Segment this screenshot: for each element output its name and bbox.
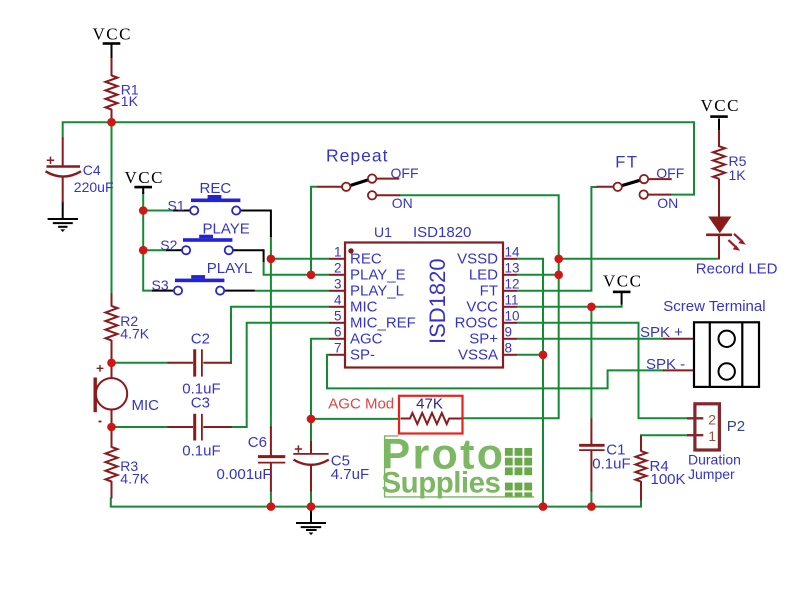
wire AGC node to 47K — [311, 418, 399, 420]
svg-text:LED: LED — [469, 267, 498, 284]
svg-text:PLAY_L: PLAY_L — [350, 283, 404, 300]
wire pin12 FT to switch — [517, 187, 598, 291]
svg-text:VCC: VCC — [466, 299, 498, 316]
svg-text:REC: REC — [200, 180, 232, 197]
wire pin14 VSSD to ground rail — [517, 259, 543, 507]
wire C6 bottom to rail — [270, 490, 272, 506]
wire S2 left lead — [166, 249, 182, 251]
resistor R3 — [106, 447, 118, 482]
switch SW1 Repeat — [342, 174, 376, 199]
svg-text:Repeat: Repeat — [326, 145, 388, 165]
wire ground bottom rail — [111, 498, 641, 507]
screw terminal J1 — [694, 322, 759, 387]
wire C2 right lead — [203, 362, 232, 364]
svg-text:Jumper: Jumper — [688, 466, 735, 482]
svg-text:5: 5 — [334, 309, 342, 324]
svg-text:P2: P2 — [727, 418, 745, 435]
wire C4 to ground — [62, 202, 64, 219]
svg-text:C4: C4 — [83, 162, 101, 178]
VCC symbol 1 bar — [103, 42, 121, 45]
svg-text:VCC: VCC — [125, 168, 164, 187]
wire C4 lower lead — [62, 177, 64, 203]
capacitor C2 — [195, 349, 202, 376]
wire C3 to pin5 MIC_REF — [231, 323, 329, 427]
VCC symbol 4 bar — [613, 291, 631, 294]
wire FT ON lead — [648, 194, 671, 196]
svg-text:SPK +: SPK + — [640, 324, 683, 341]
wire S1 to REC node — [270, 236, 272, 259]
svg-text:VCC: VCC — [701, 96, 740, 115]
wire pin7 SP- to SPK- — [327, 355, 664, 389]
resistor 47K red box — [399, 396, 463, 434]
wire S2 to PLAY_E row — [264, 261, 329, 275]
logo ProtoSupplies border — [385, 436, 535, 497]
wire Repeat pole to pin2 node — [311, 187, 319, 275]
ground symbol main — [296, 523, 326, 530]
svg-text:S1: S1 — [168, 197, 185, 213]
capacitor C3 — [195, 414, 202, 441]
IC pin names left — [350, 251, 416, 364]
wire 47K left lead — [401, 418, 411, 420]
wire MIC leads — [111, 363, 113, 379]
logo squares grid — [505, 448, 532, 497]
wire R2 leads — [111, 293, 113, 307]
svg-text:100K: 100K — [651, 471, 686, 488]
wire R3 leads — [111, 427, 113, 448]
svg-text:12: 12 — [505, 277, 520, 292]
IC U1 ISD1820 body — [345, 243, 503, 368]
svg-text:C3: C3 — [191, 395, 210, 412]
svg-text:Record LED: Record LED — [696, 261, 778, 278]
wire VCC top rail — [63, 122, 694, 194]
jumper P2 box — [695, 404, 720, 450]
IC pin numbers left — [334, 245, 342, 356]
svg-text:OFF: OFF — [391, 165, 419, 181]
wire C4 top lead — [62, 138, 64, 167]
svg-text:9: 9 — [505, 325, 513, 340]
wire C3 left lead — [168, 426, 194, 428]
svg-text:MIC: MIC — [350, 299, 378, 316]
wire LED cathode lead — [718, 235, 720, 260]
svg-text:4.7K: 4.7K — [120, 471, 149, 487]
wire pin13 LED row — [517, 274, 559, 276]
wire VCC1 stub — [111, 45, 113, 60]
svg-text:SP+: SP+ — [469, 331, 498, 348]
resistor R2 — [106, 306, 118, 340]
svg-text:PLAYL: PLAYL — [207, 260, 253, 277]
svg-text:VSSA: VSSA — [458, 347, 498, 364]
wire S1 right lead corner — [241, 211, 271, 238]
wire Repeat ON to vertical bus — [399, 195, 558, 418]
wire P2 pin1 stub — [687, 434, 703, 436]
IC pin names right — [455, 251, 499, 364]
wire MIC+ to C2 — [112, 362, 169, 364]
wire C2 left lead — [168, 362, 194, 364]
wire R5 leads — [718, 130, 720, 147]
wire MIC- to C3 — [112, 426, 169, 428]
svg-text:AGC: AGC — [350, 331, 383, 348]
svg-text:VCC: VCC — [603, 271, 642, 290]
wire S2 feed — [143, 249, 167, 251]
svg-text:SP-: SP- — [350, 347, 375, 364]
wire SPK+ lead — [663, 338, 694, 340]
wire 47K right lead — [449, 418, 462, 420]
wire C3 right lead — [203, 426, 232, 428]
switch SW2 FT — [614, 175, 649, 199]
svg-text:220uF: 220uF — [74, 179, 114, 195]
svg-text:VCC: VCC — [93, 25, 132, 44]
svg-text:0.1uF: 0.1uF — [182, 443, 220, 460]
svg-text:7: 7 — [334, 341, 342, 356]
IC pin stubs left 1-7 — [329, 259, 345, 355]
wire node REC down to C6 — [270, 259, 272, 428]
svg-text:ISD1820: ISD1820 — [413, 224, 471, 241]
wire C5 rail to ground symbol — [310, 507, 312, 523]
svg-text:4.7K: 4.7K — [120, 326, 149, 342]
wire R1 top chain to R2 — [111, 117, 113, 294]
wire pin8 VSSA — [517, 354, 543, 356]
svg-text:10: 10 — [505, 309, 520, 324]
svg-text:3: 3 — [334, 277, 342, 292]
wire FT pole lead — [597, 186, 614, 188]
svg-text:MIC_REF: MIC_REF — [350, 315, 416, 332]
svg-text:4: 4 — [334, 293, 342, 308]
pushbutton S1 REC — [190, 195, 240, 215]
microphone MIC — [95, 365, 127, 422]
svg-text:MIC: MIC — [132, 397, 160, 414]
wire R4 top to P2 pin1 — [641, 435, 688, 437]
wire AGC node to C5 — [310, 419, 312, 442]
wire Repeat OFF lead — [376, 178, 399, 180]
wire VCC2 vertical to S3 — [143, 192, 153, 291]
svg-text:14: 14 — [505, 245, 521, 260]
svg-text:47K: 47K — [416, 396, 443, 413]
wire FT OFF lead — [648, 178, 672, 180]
svg-text:AGC Mod: AGC Mod — [328, 396, 394, 413]
svg-text:PLAY_E: PLAY_E — [350, 267, 406, 284]
wire R1 leads — [111, 58, 113, 76]
resistor R1 — [106, 76, 118, 110]
svg-text:C2: C2 — [191, 331, 210, 348]
svg-text:U1: U1 — [374, 224, 392, 240]
svg-text:FT: FT — [615, 153, 638, 171]
svg-text:OFF: OFF — [656, 165, 684, 181]
wire pin6 AGC down — [311, 339, 329, 419]
wire VCC3 stub — [718, 119, 720, 132]
svg-text:6: 6 — [334, 325, 342, 340]
resistor R4 — [636, 451, 647, 482]
capacitor C4 — [46, 157, 82, 177]
svg-text:ISD1820: ISD1820 — [425, 258, 450, 344]
wire C1 leads — [590, 419, 592, 445]
wire P2 pin2 stub — [687, 417, 703, 419]
wire S3 right lead — [221, 290, 255, 292]
wire SPK- lead — [663, 369, 694, 371]
wire S2 right lead corner — [229, 250, 263, 262]
resistor 47K AGC mod — [410, 413, 449, 424]
svg-text:1K: 1K — [121, 93, 139, 109]
svg-text:Screw Terminal: Screw Terminal — [663, 298, 765, 315]
wire VCC4 stub — [621, 293, 623, 305]
black wire segments — [63, 45, 719, 523]
wire pin10 ROSC to P2 pin2 — [517, 323, 688, 419]
capacitor C1 — [579, 445, 605, 450]
pin 1 indicator dot — [348, 248, 353, 253]
svg-text:VSSD: VSSD — [457, 251, 498, 268]
capacitor C6 — [258, 457, 285, 463]
wire VCC2 stub — [142, 188, 144, 194]
wire R4 leads — [640, 436, 642, 452]
wire VCC node down to C1 — [590, 307, 592, 420]
svg-text:0.1uF: 0.1uF — [592, 456, 630, 473]
wire S1 feed — [143, 210, 174, 212]
wire REC row pin1 — [271, 258, 329, 260]
svg-text:REC: REC — [350, 251, 382, 268]
svg-text:ON: ON — [392, 195, 413, 211]
svg-text:13: 13 — [505, 261, 520, 276]
svg-text:ROSC: ROSC — [455, 315, 499, 332]
svg-text:2: 2 — [708, 411, 716, 427]
svg-text:C6: C6 — [248, 434, 267, 451]
svg-text:11: 11 — [505, 293, 519, 308]
VCC symbol 2 bar — [134, 186, 152, 189]
svg-text:1K: 1K — [729, 167, 747, 183]
VCC symbol 3 bar — [710, 115, 728, 118]
wire S3 to PLAY_L pin3 — [255, 290, 329, 292]
wire C6 leads — [270, 427, 272, 456]
wire pin11 VCC row — [517, 305, 622, 307]
wire S1 left lead — [173, 210, 190, 212]
resistor R5 — [713, 146, 725, 179]
svg-text:8: 8 — [505, 341, 513, 356]
svg-text:4.7uF: 4.7uF — [331, 466, 369, 483]
ground symbol C4 — [48, 219, 78, 227]
ground triangle main — [309, 533, 314, 536]
svg-text:2: 2 — [334, 261, 342, 276]
svg-text:S2: S2 — [160, 237, 177, 253]
wire C2 to pin4 MIC — [231, 307, 329, 364]
wire S3 left lead — [152, 290, 173, 292]
svg-text:ON: ON — [657, 195, 678, 211]
ground triangle C4 — [60, 229, 65, 232]
svg-text:1: 1 — [334, 245, 342, 260]
wire Repeat ON lead — [376, 194, 400, 196]
wire C5 leads — [310, 441, 312, 453]
wire C5 bottom to rail — [310, 490, 312, 506]
IC pin stubs right 14-8 — [503, 259, 517, 355]
LED D1 record — [706, 217, 746, 251]
pushbutton S2 PLAYE — [182, 235, 233, 255]
dark red wire segments — [63, 58, 719, 501]
IC pin numbers right — [505, 245, 521, 356]
wire Repeat pole lead — [318, 186, 343, 188]
capacitor C5 — [293, 445, 329, 464]
svg-text:Supplies: Supplies — [382, 466, 501, 499]
svg-text:FT: FT — [480, 283, 498, 300]
svg-text:S3: S3 — [152, 277, 169, 293]
svg-text:SPK -: SPK - — [646, 356, 685, 373]
pushbutton S3 PLAYL — [174, 275, 225, 295]
svg-text:1: 1 — [708, 428, 716, 444]
svg-text:PLAYE: PLAYE — [203, 220, 250, 237]
svg-text:0.001uF: 0.001uF — [217, 466, 272, 483]
wire pin9 SP+ to SPK+ — [517, 338, 663, 340]
wire C1 bottom to rail — [590, 490, 592, 506]
wire LED row — [559, 258, 718, 260]
